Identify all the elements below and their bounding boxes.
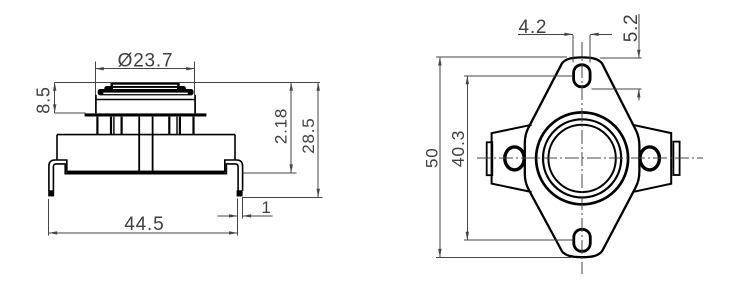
vertical centreline	[581, 42, 583, 274]
28.5 lower extension from right foot	[243, 196, 323, 198]
right tab terminal rect	[673, 142, 679, 175]
svg-text:50: 50	[423, 147, 442, 168]
inner circle	[548, 125, 615, 192]
dim 4.2 line	[518, 33, 573, 35]
ceramic body right side	[234, 135, 236, 160]
dim 4.2 extension lines	[572, 35, 574, 62]
svg-text:1: 1	[261, 198, 271, 217]
mounting bracket outer contour	[49, 160, 243, 191]
centre post lines	[138, 117, 140, 172]
cap body right side	[194, 95, 196, 113]
dim 5.2 extension lines	[600, 57, 642, 59]
dim 5.2 line	[638, 14, 640, 58]
svg-text:Ø23.7: Ø23.7	[118, 51, 174, 72]
mounting bracket inner contour	[53, 164, 238, 191]
top slot hole	[574, 65, 591, 87]
dim 40.3 extension lines	[464, 75, 573, 77]
dim 44.5 line	[49, 232, 238, 234]
flange bar	[85, 113, 207, 116]
dim Ø23.7 line	[95, 68, 194, 70]
top shared extension line y=82.3	[55, 81, 320, 83]
svg-text:2.18: 2.18	[272, 108, 291, 144]
horizontal centreline	[477, 157, 703, 159]
middle circle	[543, 119, 621, 197]
right pin group	[192, 117, 194, 135]
svg-text:44.5: 44.5	[124, 214, 164, 235]
dim 2.18 line	[290, 82, 292, 173]
left pin group	[96, 117, 98, 135]
dim 8.5 bottom extension	[55, 112, 86, 114]
dim 44.5 extension lines	[48, 199, 50, 236]
dim 28.5 line	[317, 82, 319, 197]
cap skirt bottom line	[96, 99, 196, 101]
left tab terminal rect	[487, 142, 493, 175]
dim 28.5 bottom extension	[243, 196, 323, 198]
svg-text:40.3: 40.3	[448, 130, 468, 167]
dim Ø23.7 extension lines	[94, 62, 96, 96]
cap step3 white face	[103, 93, 188, 95]
dim 50 extension lines	[436, 56, 567, 58]
svg-text:4.2: 4.2	[518, 17, 547, 38]
bottom slot hole	[574, 229, 591, 251]
cap body left side	[95, 95, 97, 113]
cap step1 white face	[113, 85, 177, 86]
svg-text:8.5: 8.5	[34, 86, 54, 113]
thermostat side view: cap step3 slab	[98, 89, 194, 95]
cap step1 slab	[110, 82, 179, 86]
dim 1 line right part	[243, 215, 273, 217]
right tab trapezoid	[633, 125, 672, 192]
outer circle	[536, 112, 628, 204]
dim 2.18 bottom extension	[244, 172, 297, 174]
svg-text:5.2: 5.2	[621, 13, 642, 42]
cap step2 slab	[104, 86, 186, 92]
dim 8.5 line	[54, 82, 56, 113]
flange outline (rounded rhombus)	[525, 57, 640, 257]
cap step2 white face	[113, 88, 177, 89]
left tab trapezoid	[492, 125, 532, 192]
ceramic body top line	[57, 134, 235, 136]
right tab hole	[640, 147, 659, 170]
bracket base plate (dark band)	[66, 171, 225, 174]
dim 1 line left part	[218, 215, 238, 217]
left tab hole	[505, 147, 524, 170]
dim 50 line	[439, 57, 441, 257]
dim 40.3 line	[466, 76, 468, 240]
left foot	[48, 190, 54, 196]
ceramic body left side	[56, 135, 58, 160]
svg-text:28.5: 28.5	[299, 117, 318, 153]
right foot	[237, 190, 243, 196]
